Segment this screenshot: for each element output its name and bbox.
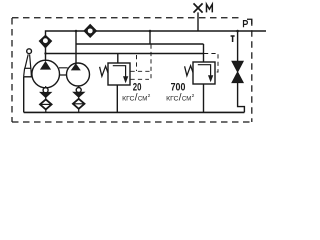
plugged port X (M): [194, 3, 203, 12]
wire outlet to tank: [203, 84, 205, 112]
wire riser of right pump: [75, 31, 77, 64]
svg-text:КГС/СМ2: КГС/СМ2: [166, 92, 195, 103]
pilot line dashes: [204, 54, 218, 73]
lever control of pump 1: [24, 49, 32, 77]
label P: [244, 21, 248, 28]
internal flow arrow: [113, 66, 126, 77]
relief valve 2 (700 kgf/cm2): [185, 44, 218, 112]
check valve (ball on seat) under pump 2: [73, 88, 84, 99]
wire pump2 suction stub: [78, 86, 80, 88]
node junction dots on P line: [75, 30, 78, 33]
check valve (ball in seat) on left riser: [39, 35, 51, 47]
filter under pump 1: [40, 99, 52, 112]
label M: [207, 4, 213, 12]
check valve (ball on seat) under pump 1: [40, 86, 51, 99]
wire bus1 (y=44) to right relief valve: [76, 43, 204, 45]
tank return bus (bottom): [24, 111, 245, 113]
wire riser of left pump: [45, 47, 47, 61]
wire inlet riser: [117, 54, 119, 64]
filter under pump 2: [73, 99, 85, 113]
spring: [185, 66, 193, 76]
wire M branch: [197, 12, 199, 31]
wire needle valve to tank bus: [238, 83, 245, 113]
wire pump1 left port / drain to tank: [24, 76, 32, 78]
pump 2 (right): [67, 63, 90, 86]
label T: [231, 36, 235, 42]
shut-off needle valve (bowtie): [232, 61, 243, 82]
wire link from P to bus1: [149, 31, 151, 44]
relief valve 1 (20 kgf/cm2): [100, 45, 152, 113]
check valve (ball in seat) on P line: [84, 25, 97, 38]
wire bus2 (y=53.5): [46, 53, 204, 55]
spring: [100, 66, 108, 76]
wire P line (pressure bus y=31): [46, 31, 267, 36]
internal flow arrow: [198, 65, 211, 76]
pilot line dashes: [131, 45, 152, 80]
svg-text:КГС/СМ2: КГС/СМ2: [122, 93, 151, 104]
wire inlet riser: [203, 44, 205, 62]
enclosure dashed boundary (power unit): [12, 18, 252, 122]
wire needle-valve branch from P: [237, 31, 239, 61]
wire shaft coupling between pumps (double line): [59, 68, 68, 75]
wire outlet to tank: [116, 85, 118, 112]
boundary corner piece near P: [247, 19, 252, 24]
pump 1 (left, with lever): [32, 60, 60, 88]
